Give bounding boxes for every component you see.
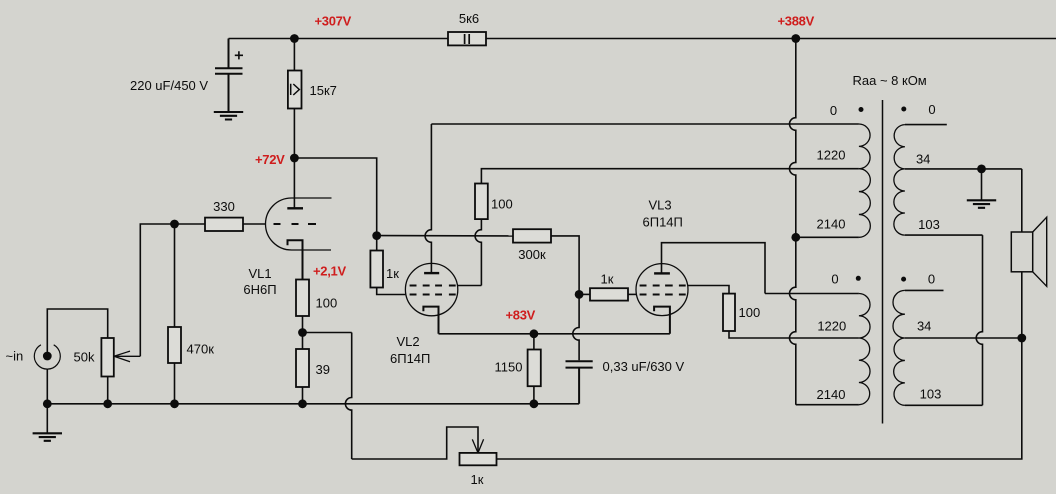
svg-text:0: 0 [831,271,838,286]
wire secondary D 34 tap [905,337,1022,339]
wire speaker ground stub [981,169,983,200]
wire node to 1к [579,293,590,295]
junction +83V / R1150 [530,329,539,338]
resistor 1150 [528,350,541,387]
phase dot primary B [856,276,861,281]
VL2 cathode [423,307,438,334]
wire 50k bottom to bus [107,377,109,404]
OT primary winding B (1220+2140) [859,294,870,405]
wire 1к to VL3 grid [628,293,636,295]
svg-text:2140: 2140 [817,217,846,232]
capacitor 0,33 uF/630 V [566,361,593,404]
wire VL2 anode to OT primary 0 [431,123,859,125]
ground (input) [33,433,62,441]
wire speaker top lead [1021,169,1023,232]
wire grid node to 300к [377,235,513,237]
wire primary B bottom terminal [796,404,859,406]
junction bus / R39 [298,399,307,408]
wire 470к to bus [174,363,176,404]
VL2 control grid (dashed) [410,294,456,296]
resistor 330 (grid stopper) [205,218,243,231]
svg-text:103: 103 [918,217,940,232]
svg-text:+2,1V: +2,1V [313,264,346,279]
wire input ground stub [46,404,48,433]
svg-text:1к: 1к [601,272,614,287]
input connector ~in [34,345,60,369]
svg-text:Raa ~ 8 кОм: Raa ~ 8 кОм [853,73,927,88]
svg-text:1220: 1220 [817,318,846,333]
VL3 cathode [654,307,670,334]
VL1 grid (dashed) [274,223,317,225]
resistor 15к7 [288,71,302,109]
phase dot secondary D [901,277,906,282]
svg-text:0,33 uF/630 V: 0,33 uF/630 V [603,359,685,374]
wire input shield to ground bus [46,369,48,404]
wire secondary D 0 terminal (free) [905,289,944,291]
wire secondary D 103 terminal [905,404,983,406]
wire VL3 anode to OT primary lower 0 [662,243,766,294]
resistor 100 (VL3 screen) [723,294,735,331]
junction +307V node [290,34,299,43]
svg-text:100: 100 [491,197,513,212]
OT primary winding A (1220+2140) [859,124,870,237]
svg-text:470к: 470к [187,342,215,357]
ground (filter cap) [214,112,243,120]
svg-text:1220: 1220 [817,148,846,163]
VL1 anode plate bar [287,207,303,209]
wire node to 1к top [376,236,378,251]
junction VL1 cathode node [298,328,307,337]
ground (speaker) [967,200,996,208]
svg-text:6П14П: 6П14П [643,215,683,230]
svg-text:VL1: VL1 [249,266,272,281]
junction bus / R1150 [530,399,539,408]
VL2 screen grid (dashed) [410,285,456,287]
svg-text:0: 0 [830,103,837,118]
VL3 screen grid (dashed) [640,285,686,287]
speaker [1011,232,1032,272]
svg-text:6П14П: 6П14П [390,351,430,366]
svg-text:50k: 50k [74,350,95,365]
svg-text:+83V: +83V [506,307,536,322]
svg-text:+72V: +72V [255,152,285,167]
wire +83V to 1150 [533,334,535,350]
wire speaker bottom lead [1021,272,1023,338]
OT secondary winding C (34+103) [894,125,905,236]
svg-text:6Н6П: 6Н6П [243,282,276,297]
wire node to R330 [175,223,206,225]
svg-text:39: 39 [316,362,330,377]
wire R100 to R39 [302,316,304,349]
wire ground bus [47,403,579,405]
svg-text:330: 330 [213,199,235,214]
svg-text:5к6: 5к6 [459,11,479,26]
wire top rail segment (R 5k6 to right edge through +388V node) [486,38,1056,40]
junction +388V node [791,34,800,43]
junction speaker+ / ground [977,165,986,174]
wire secondary C 103 terminal [905,234,983,236]
svg-text:~in: ~in [6,349,24,364]
wire VL2 anode up (hops coupling line) [425,124,431,273]
phase dot secondary C [901,107,906,112]
potentiometer 50k body [101,338,113,377]
wire secondary C 0 terminal (free) [905,124,947,126]
wire +83V cathode line [439,333,670,335]
svg-text:34: 34 [917,318,931,333]
wire R330 to VL1 grid [243,223,266,225]
tube VL3 6П14П envelope [636,264,688,316]
svg-text:1150: 1150 [495,360,523,375]
polarity + mark [235,51,243,59]
svg-text:15к7: 15к7 [310,83,337,98]
svg-text:1к: 1к [471,472,484,487]
wire 15к7 to +72V node [293,109,295,159]
tube VL1 6Н6П envelope (half circle) [266,198,332,250]
svg-text:+307V: +307V [315,14,352,29]
svg-text:0: 0 [928,272,935,287]
wire top rail +307V segment (cap to R 5k6) [229,38,449,40]
wire +307V to 15к7 [293,39,295,71]
svg-text:100: 100 [316,296,338,311]
wire feedback return line [497,338,1022,459]
wire grid node to 470к [174,224,176,327]
svg-text:2140: 2140 [817,387,846,402]
junction speaker- / feedback [1017,334,1026,343]
svg-text:220 uF/450 V: 220 uF/450 V [130,78,208,93]
svg-text:+388V: +388V [778,14,815,29]
resistor 100 (VL1 cathode) [296,280,309,317]
wire input pin to 50k pot top [47,309,107,356]
wire screen up to R100 (hops coupling line) [475,219,481,285]
wire R39 to bus [302,387,304,404]
wire R100 to OT lower tap 1220 [729,331,859,338]
capacitor 220 uF/450 V [215,39,243,112]
wire OT primary lower 0 terminal [765,293,859,295]
svg-text:1к: 1к [386,266,399,281]
wire feedback drop (hops ground bus) [345,333,351,460]
resistor 1к (VL3 grid) [590,288,628,300]
junction bus / input shield [43,399,52,408]
OT secondary winding D (34+103) [893,290,905,405]
junction bus / 470к [170,399,179,408]
svg-text:103: 103 [920,387,942,402]
wire VL3 grid node down to cap (hops +83V line) [573,294,579,360]
VL2 anode plate bar [424,272,439,274]
svg-text:VL2: VL2 [397,334,420,349]
svg-text:34: 34 [916,151,930,166]
junction VL2 grid R node [372,231,381,240]
50k wiper arrow [114,351,140,362]
VL3 control grid (dashed) [640,294,686,296]
junction VL1 grid node [170,220,179,229]
junction VL3 grid node [575,290,584,299]
phase dot primary A [859,107,864,112]
resistor 470к (grid leak) [168,327,181,363]
wire 50k wiper to VL1 grid node [140,224,174,356]
resistor 5к6 (anode supply) [448,32,486,45]
VL1 cathode [288,240,303,279]
wire VL2 screen lead [458,285,482,287]
wire +388V bus down (hops winding taps) [790,39,796,405]
potentiometer 1к body [460,453,497,465]
input connector center pin [43,352,52,361]
wire feedback to 1к pot wiper [352,427,478,459]
wire primary A bottom terminal [796,236,859,238]
resistor 1к (VL2 grid) [370,251,383,288]
VL3 anode plate bar [654,272,670,274]
power mark II inside 5к6 [465,34,470,44]
resistor 39 [296,349,309,387]
power mark inside 15к7 [291,84,300,95]
svg-text:300к: 300к [518,247,546,262]
svg-text:100: 100 [739,305,761,320]
wire C103 to D103 (hops D tap) [976,235,982,405]
wire 1150 to bus [533,386,535,404]
wire screen R100 to OT tap 1220 [481,169,859,184]
junction bus / 50k [103,399,112,408]
svg-text:VL3: VL3 [649,198,672,213]
wire cathode node to feedback [303,332,352,334]
junction +72V node [290,154,299,163]
wire VL3 screen to R100 [688,286,729,294]
tube VL2 6П14П envelope [405,263,457,315]
resistor 300к [513,229,551,242]
1к pot wiper arrow [472,439,483,453]
wire 300к to VL3 grid node [551,236,579,295]
OT core [882,100,884,424]
junction +388V / primary center [791,233,800,242]
wire 1к to VL2 grid [377,288,406,295]
wire +72V node to VL2 grid resistor [294,158,376,236]
wire +72V to VL1 anode [293,158,295,208]
resistor 100 (VL2 screen) [475,184,488,220]
wire secondary C 34 tap to speaker+ [905,168,1022,170]
svg-text:0: 0 [928,102,935,117]
